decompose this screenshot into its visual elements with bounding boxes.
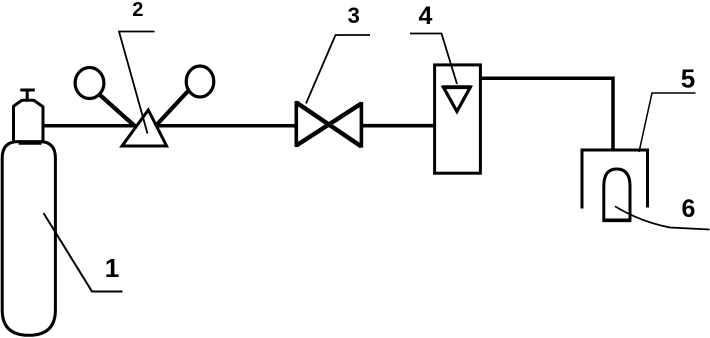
leader line to label 1 xyxy=(44,213,123,292)
svg-text:6: 6 xyxy=(682,195,696,223)
leader line to label 6 xyxy=(615,206,710,229)
chamber left wall xyxy=(581,150,584,209)
pressure regulator 2 (triangle) xyxy=(122,110,167,146)
chamber right wall xyxy=(646,150,649,208)
valve 3 (bowtie) left seat xyxy=(294,101,298,147)
flowmeter float (inverted triangle) xyxy=(443,87,470,111)
pipe: cylinder to valve V1 xyxy=(43,124,296,128)
svg-text:3: 3 xyxy=(348,3,360,28)
svg-text:1: 1 xyxy=(105,253,119,283)
chamber 5 top wall xyxy=(581,149,650,152)
gas cylinder body 1 xyxy=(2,142,55,336)
burner dome 6 xyxy=(604,169,630,220)
burner dome bottom xyxy=(602,219,631,223)
pressure gauge right xyxy=(186,66,214,97)
leader line to label 3 xyxy=(306,35,370,104)
leader line to label 4 xyxy=(410,34,457,85)
pipe: flowmeter outlet to chamber xyxy=(481,78,613,150)
svg-text:4: 4 xyxy=(418,2,432,30)
leader line to label 2 xyxy=(119,32,155,134)
gauge stem right xyxy=(156,91,189,126)
pressure gauge left xyxy=(75,68,104,99)
gauge stem left xyxy=(100,95,138,129)
valve 3 right seat xyxy=(360,102,364,148)
svg-text:5: 5 xyxy=(681,64,695,94)
valve 3 cross strokes xyxy=(296,103,361,147)
cylinder valve T-stem xyxy=(20,90,35,101)
svg-text:2: 2 xyxy=(132,0,143,21)
leader line to label 5 xyxy=(639,93,696,152)
pipe: valve to flowmeter xyxy=(362,124,436,128)
cylinder shoulder seam xyxy=(19,142,42,145)
flowmeter body 4 xyxy=(435,65,481,173)
gas cylinder neck xyxy=(14,100,44,144)
